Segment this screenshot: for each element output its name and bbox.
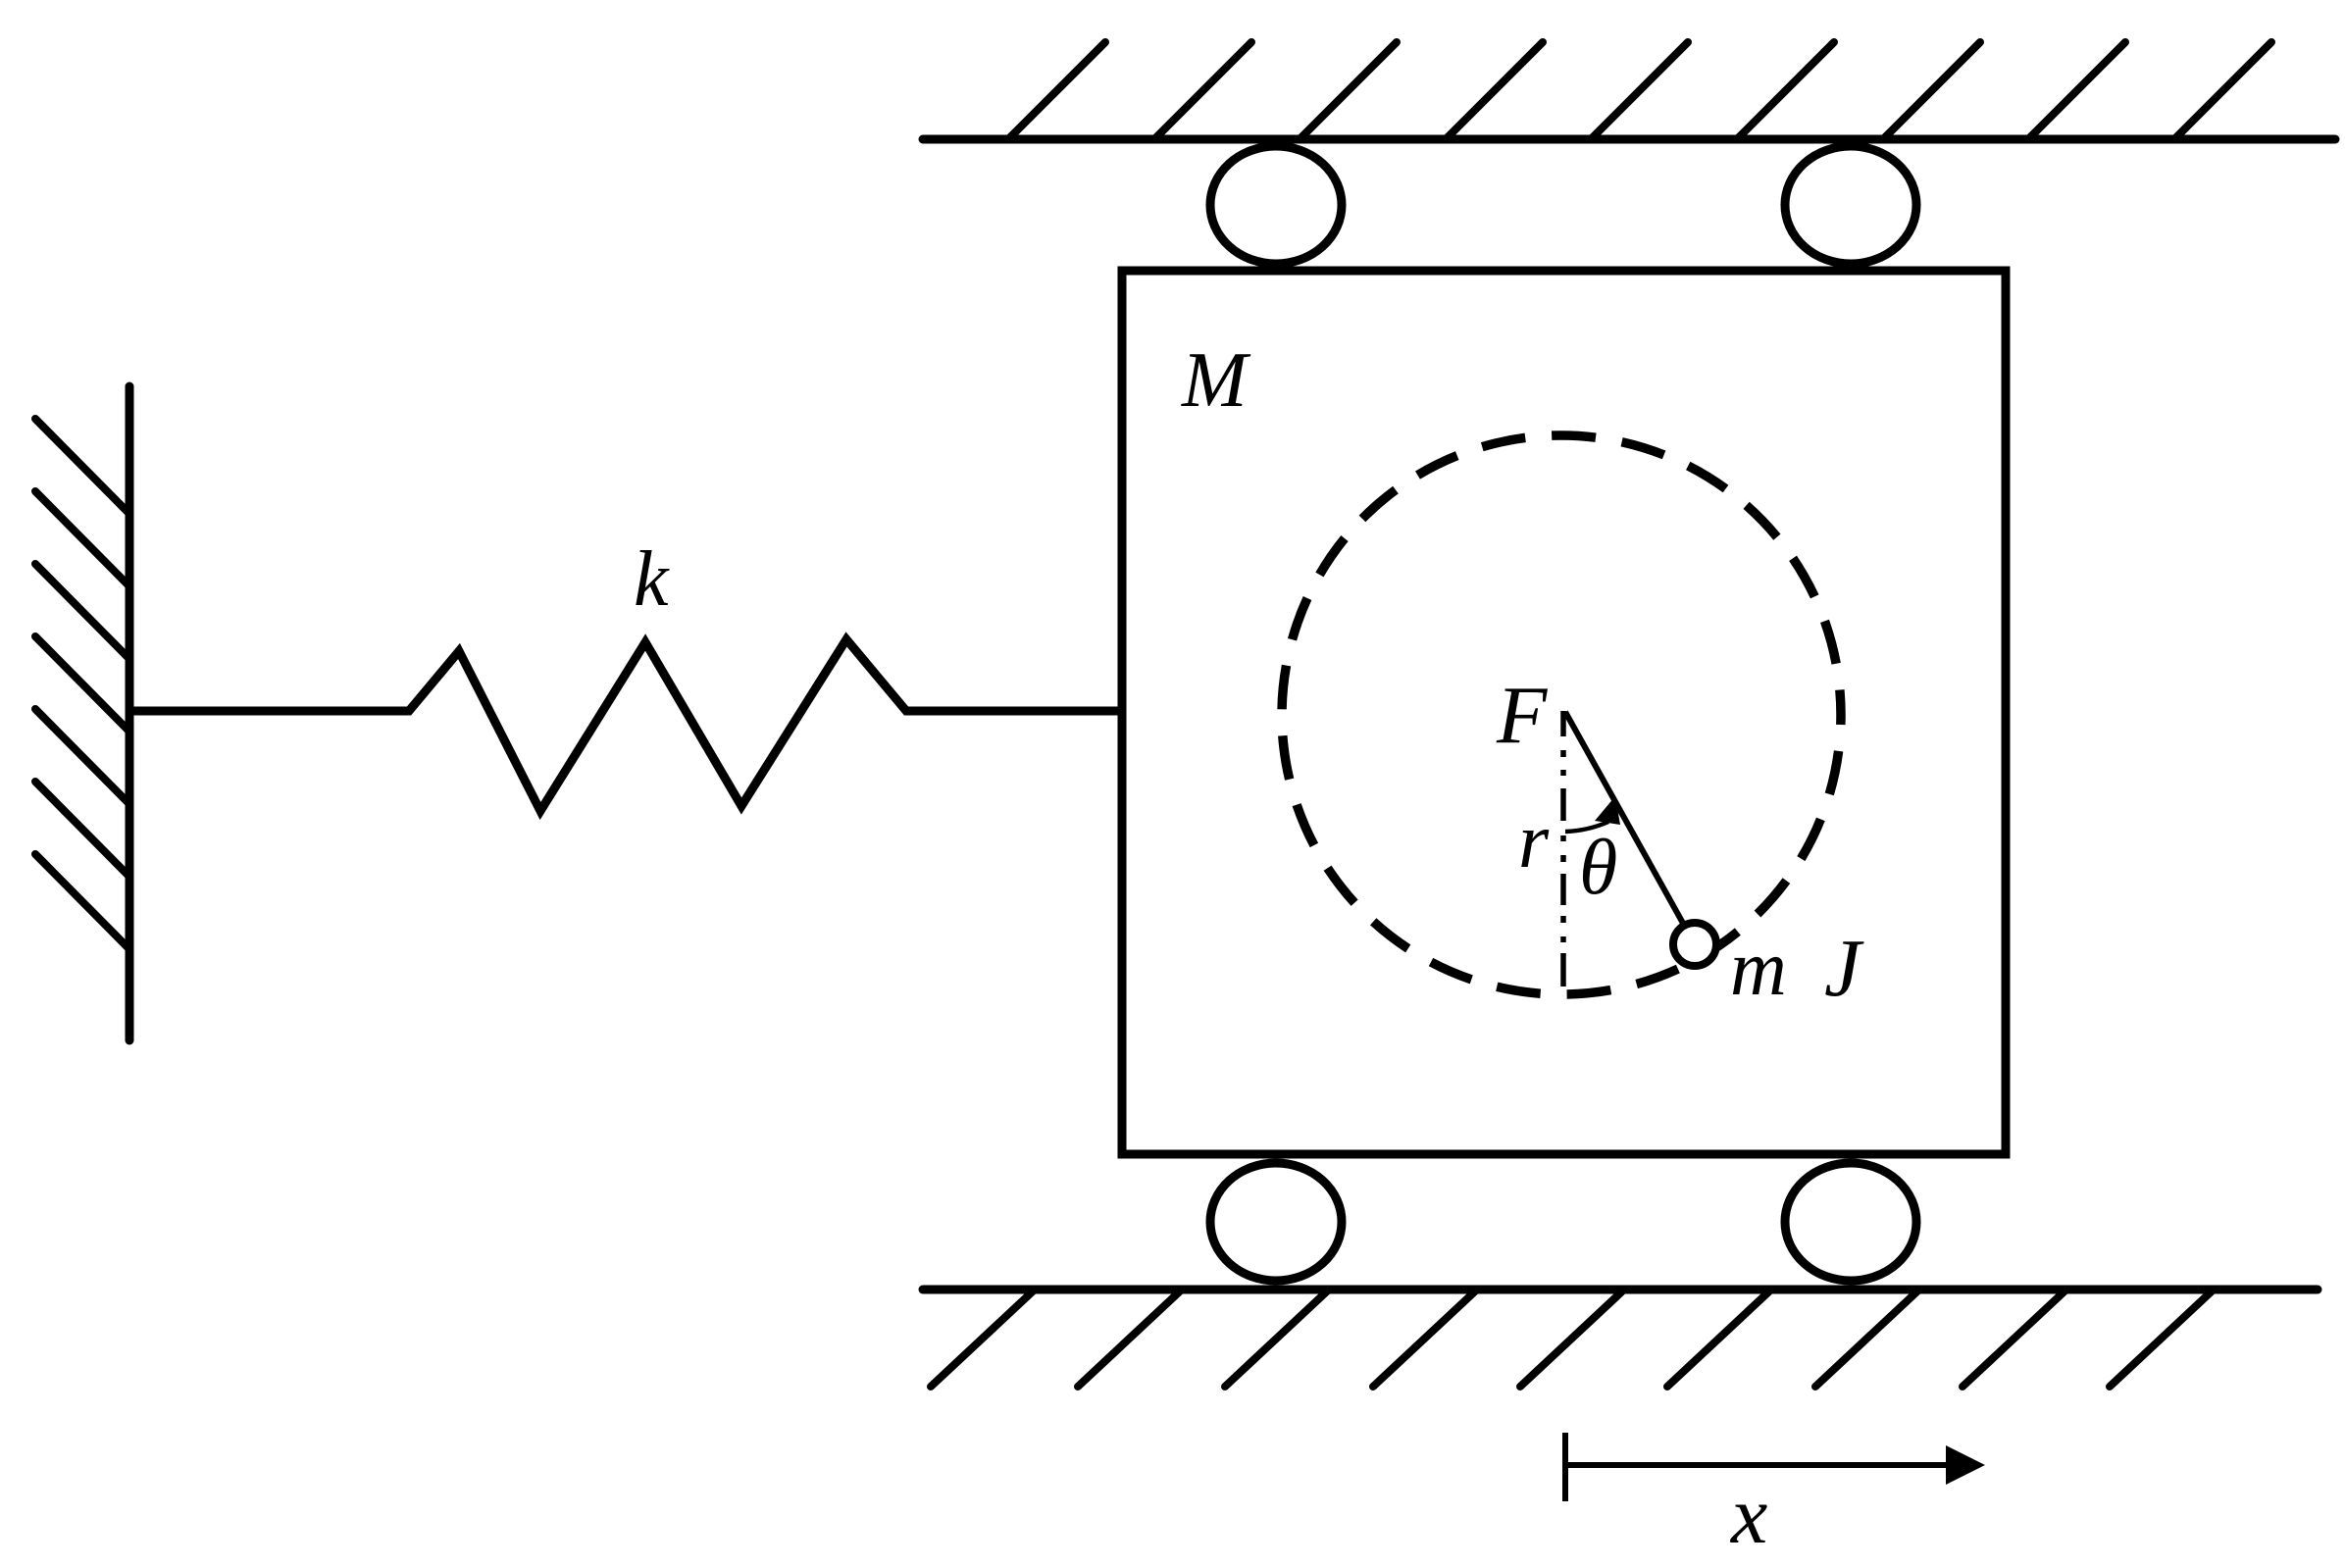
angle θ arc bbox=[1565, 822, 1608, 832]
svg-text:k: k bbox=[634, 536, 670, 623]
roller bottom-right bbox=[1785, 1163, 1916, 1281]
x axis arrow line bbox=[1565, 1462, 1950, 1468]
mass M box bbox=[1122, 271, 2006, 1154]
vertical reference dash-dot line bbox=[1560, 711, 1566, 986]
svg-text:M: M bbox=[1181, 337, 1251, 424]
eccentric mass m bbox=[1673, 923, 1716, 966]
x axis tick bbox=[1562, 1433, 1568, 1501]
svg-text:m: m bbox=[1730, 926, 1787, 1012]
crank radius rod bbox=[1565, 712, 1695, 944]
svg-text:x: x bbox=[1729, 1470, 1767, 1561]
angle arrowhead bbox=[1595, 796, 1620, 825]
roller bottom-left bbox=[1210, 1163, 1342, 1281]
svg-text:J: J bbox=[1824, 923, 1864, 1014]
ceiling line bbox=[923, 135, 2335, 144]
ground hatching bbox=[931, 1290, 2214, 1387]
x axis arrowhead bbox=[1946, 1445, 1985, 1485]
roller top-right bbox=[1785, 146, 1916, 264]
spring k bbox=[129, 639, 1122, 811]
ground line bbox=[923, 1286, 2318, 1294]
wall hatching bbox=[35, 419, 129, 949]
svg-text:θ: θ bbox=[1579, 825, 1617, 911]
svg-text:F: F bbox=[1496, 670, 1549, 761]
left wall bbox=[126, 386, 134, 1040]
dashed circle (rotor path) bbox=[1282, 435, 1841, 994]
ceiling hatching bbox=[1008, 42, 2271, 139]
roller top-left bbox=[1210, 146, 1342, 264]
svg-text:r: r bbox=[1518, 798, 1550, 885]
